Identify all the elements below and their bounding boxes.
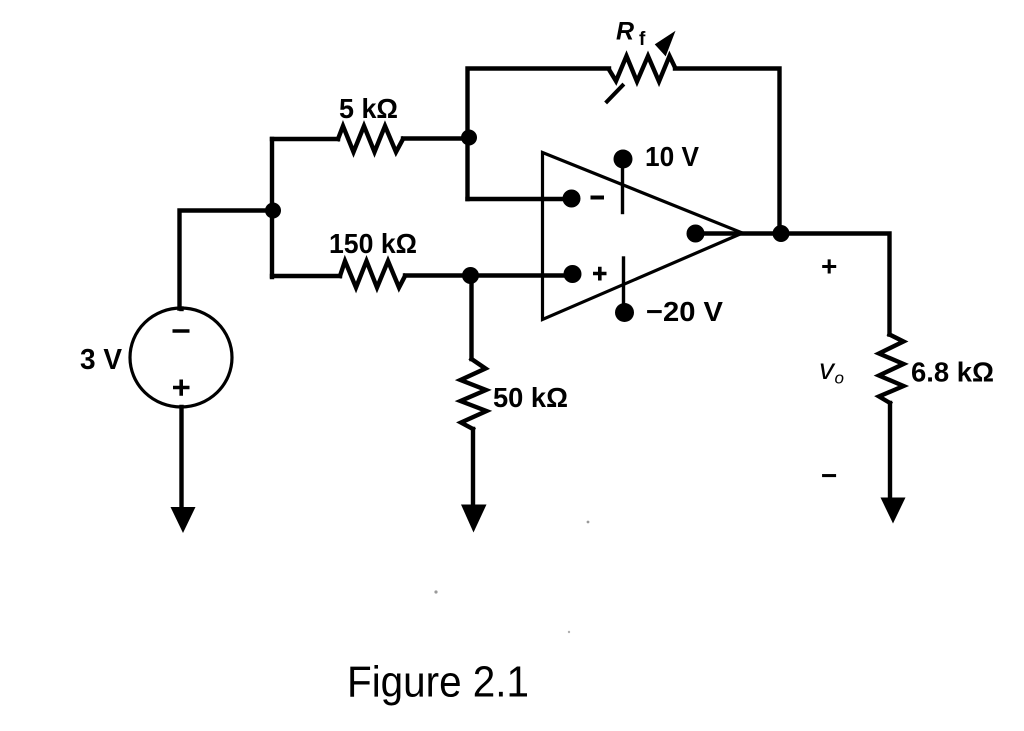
pin dot non-inverting input [564,265,582,283]
variable resistor arrow lower segment [607,86,623,102]
svg-text:10 V: 10 V [645,141,699,172]
resistor R3 50k zigzag [461,359,487,429]
svg-text:Figure 2.1: Figure 2.1 [347,658,529,707]
wire left vertical between branches [270,139,274,277]
ground arrow below 6.8k [881,498,906,524]
node dot output net [773,225,790,242]
op-amp minus sign [591,196,605,200]
op-amp plus sign [593,267,607,281]
op-amp U1 triangle [543,153,743,320]
wire 6.8k bottom lead [888,403,892,500]
speck [568,631,570,633]
wire 50k top lead [469,276,473,360]
variable resistor arrowhead [656,32,675,56]
svg-text:6.8 kΩ: 6.8 kΩ [911,357,994,388]
resistor Rf (variable) [609,56,675,82]
svg-text:50 kΩ: 50 kΩ [493,382,568,413]
wire source bottom lead [179,407,183,510]
pin dot output [687,225,705,243]
-20V supply pin line [622,258,625,308]
svg-text:5 kΩ: 5 kΩ [339,93,398,124]
wire feedback left vertical and top-left horizontal [468,69,610,200]
wire minus input branch [468,197,572,201]
svg-text:−: − [821,460,837,491]
node dot 150k/50k junction [462,267,479,284]
node dot 5k/feedback junction [461,130,477,146]
pin dot -20V supply [615,303,634,322]
wire source top lead [179,306,183,311]
svg-text:3 V: 3 V [80,344,123,376]
source V1 circle [130,308,232,407]
resistor R2 150k zigzag [340,261,405,288]
resistor R1 5k zigzag [338,126,403,152]
pin dot +10V supply [614,150,633,169]
wire from node to source [180,211,274,309]
source minus sign [173,329,190,333]
speck [434,590,437,593]
svg-text:o: o [835,369,844,388]
svg-text:f: f [639,29,646,50]
wire op-amp output [696,234,890,335]
wire feedback top-right horizontal and right vertical [675,69,780,234]
wire 150k left lead [272,274,340,278]
wire 50k bottom lead [471,429,475,507]
ground arrow below source [171,507,196,533]
pin dot inverting input [563,190,581,208]
svg-text:R: R [616,18,634,46]
10V supply pin line [621,162,624,213]
resistor R4 6.8k zigzag [879,335,904,404]
speck [587,521,590,524]
source plus sign [173,380,190,396]
ground arrow below 50k [461,505,487,533]
node A dot (input node) [265,203,281,219]
svg-text:150 kΩ: 150 kΩ [329,228,417,259]
svg-text:v: v [819,353,836,386]
svg-text:−20 V: −20 V [646,296,723,327]
wire 5k left lead [272,137,338,141]
svg-text:+: + [821,251,837,282]
wire 5k right lead [403,136,468,140]
wire 150k right lead to plus input [405,273,573,277]
